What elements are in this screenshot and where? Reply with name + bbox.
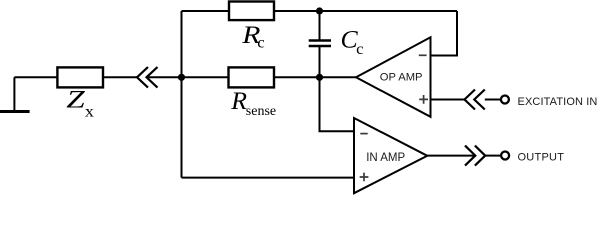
pin plus	[419, 95, 428, 104]
wire	[274, 10, 457, 12]
output wire from IN AMP	[427, 155, 475, 157]
wire Zx to chevron	[103, 76, 137, 78]
wire plus input to excitation chevrons	[431, 99, 465, 101]
resistor Zx	[57, 67, 103, 87]
svg-text:c: c	[356, 40, 363, 59]
svg-text:Z: Z	[66, 86, 85, 113]
svg-text:EXCITATION IN: EXCITATION IN	[518, 96, 598, 108]
wire node B down to IN AMP minus	[320, 77, 355, 131]
pin minus	[419, 54, 427, 56]
wire chevron to node A	[148, 76, 229, 78]
ground	[0, 77, 30, 111]
op-amp U1 OP AMP	[356, 37, 431, 117]
in-amp U2 IN AMP	[354, 118, 427, 193]
resistor Rsense	[229, 67, 275, 87]
pin minus	[360, 133, 367, 135]
bottom wire to IN AMP plus	[182, 177, 355, 179]
wire Rsense to node B	[274, 76, 356, 78]
chevron arrows excitation	[465, 90, 485, 110]
wire chevron to terminal	[485, 155, 500, 157]
left vertical wire	[181, 11, 183, 178]
svg-text:c: c	[257, 33, 264, 52]
svg-text:OUTPUT: OUTPUT	[518, 151, 565, 163]
wire chevron to terminal	[485, 99, 500, 101]
node B junction at cap	[316, 74, 323, 81]
pin plus	[360, 173, 369, 182]
svg-text:OP AMP: OP AMP	[380, 71, 423, 83]
node A junction	[178, 74, 185, 81]
node junction on top rail	[316, 7, 323, 14]
terminal OUTPUT	[501, 152, 509, 160]
resistor Rc	[229, 2, 274, 21]
wire ground to Zx	[14, 76, 57, 78]
chevron arrows on sense wire	[137, 67, 158, 88]
feedback wire minus input to top rail	[431, 11, 458, 56]
terminal EXCITATION IN	[501, 96, 509, 104]
top rail wire	[182, 10, 230, 12]
svg-text:x: x	[85, 102, 94, 120]
svg-text:sense: sense	[246, 104, 276, 119]
svg-text:IN AMP: IN AMP	[366, 152, 405, 164]
capacitor Cc	[309, 11, 331, 77]
chevron arrows output	[465, 146, 485, 166]
